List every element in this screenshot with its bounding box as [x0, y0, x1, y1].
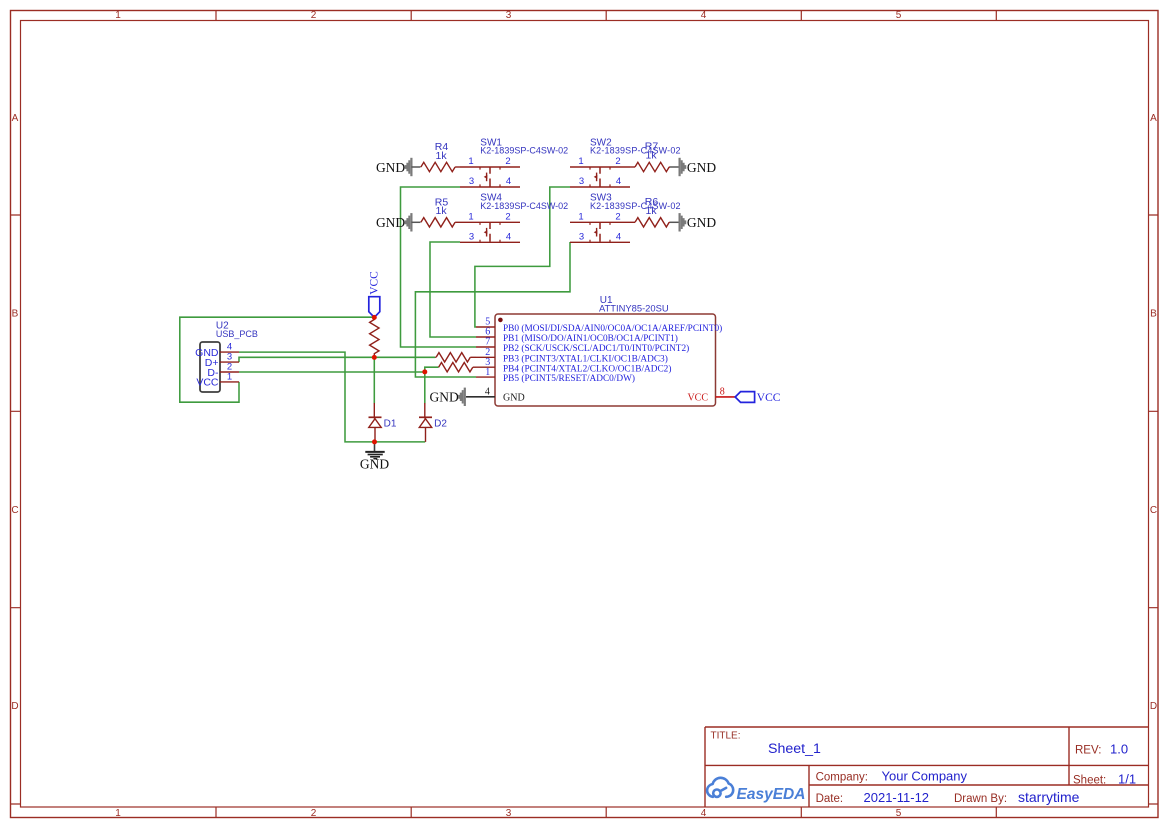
svg-text:D1: D1: [384, 418, 397, 429]
gnd flag GND (left row1): [376, 158, 421, 176]
svg-text:Your Company: Your Company: [882, 769, 968, 784]
resistor series D- to PB4: [439, 363, 476, 372]
switch SW3: [570, 212, 630, 243]
svg-text:B: B: [1150, 309, 1157, 320]
title block: [705, 727, 1149, 807]
svg-text:Sheet:: Sheet:: [1073, 774, 1106, 786]
svg-text:USB_PCB: USB_PCB: [216, 329, 258, 339]
svg-text:GND: GND: [360, 457, 389, 472]
svg-text:PB5 (PCINT5/RESET/ADC0/DW): PB5 (PCINT5/RESET/ADC0/DW): [503, 373, 635, 384]
svg-text:K2-1839SP-C4SW-02: K2-1839SP-C4SW-02: [480, 146, 568, 156]
frame row ticks left: [11, 215, 21, 804]
svg-text:A: A: [12, 113, 19, 124]
switch SW1: [460, 156, 520, 187]
U1 pin 8 VCC: [687, 387, 735, 404]
svg-text:K2-1839SP-C4SW-02: K2-1839SP-C4SW-02: [480, 201, 568, 211]
svg-text:4: 4: [485, 387, 490, 398]
IC U1 ATTINY85-20SU: [466, 295, 735, 406]
svg-text:EasyEDA: EasyEDA: [737, 786, 806, 803]
svg-text:GND: GND: [503, 393, 525, 404]
svg-text:C: C: [1150, 505, 1157, 516]
wire SW1.3 to U1 PB2: [401, 187, 477, 347]
wire D- junction to series resistor: [425, 367, 439, 372]
svg-text:1/1: 1/1: [1118, 771, 1136, 786]
resistor R6: [630, 196, 670, 227]
svg-text:ATTINY85-20SU: ATTINY85-20SU: [599, 303, 669, 314]
power flag VCC (right of U1): [735, 392, 781, 405]
U1 pin 2: [476, 347, 668, 364]
wire SW3.3 to U1 PB5: [415, 242, 570, 377]
junction dot at VCC flag: [372, 315, 377, 320]
pin 1 marker dot: [498, 318, 503, 323]
svg-text:2: 2: [311, 808, 317, 819]
svg-text:K2-1839SP-C4SW-02: K2-1839SP-C4SW-02: [590, 201, 681, 211]
EasyEDA logo: [707, 778, 805, 803]
svg-text:VCC: VCC: [757, 392, 781, 404]
svg-text:VCC: VCC: [687, 392, 708, 403]
diode D1: [369, 403, 397, 442]
U1 pin 5: [476, 317, 722, 335]
svg-text:Drawn By:: Drawn By:: [954, 793, 1007, 805]
svg-text:TITLE:: TITLE:: [711, 731, 741, 742]
svg-text:GND: GND: [430, 390, 459, 405]
U1 pin 3: [476, 357, 671, 374]
svg-text:4: 4: [701, 808, 707, 819]
switch SW4: [460, 212, 520, 243]
svg-text:K2-1839SP-C4SW-02: K2-1839SP-C4SW-02: [590, 146, 681, 156]
svg-text:PB2 (SCK/USCK/SCL/ADC1/T0/INT0: PB2 (SCK/USCK/SCL/ADC1/T0/INT0/PCINT2): [503, 343, 689, 354]
wire junction to D2: [424, 372, 426, 403]
svg-text:1: 1: [115, 808, 121, 819]
switch SW2: [570, 156, 630, 187]
svg-text:Company:: Company:: [816, 772, 868, 784]
frame row ticks right: [1149, 215, 1158, 804]
svg-text:3: 3: [506, 808, 512, 819]
svg-text:1k: 1k: [436, 150, 448, 162]
svg-text:2021-11-12: 2021-11-12: [864, 790, 930, 805]
svg-text:5: 5: [896, 808, 902, 819]
diode D2: [419, 403, 447, 442]
svg-text:1.0: 1.0: [1110, 742, 1128, 757]
svg-text:GND: GND: [376, 215, 405, 230]
svg-text:Sheet_1: Sheet_1: [768, 741, 821, 757]
svg-text:D: D: [1150, 701, 1157, 712]
svg-text:1: 1: [115, 10, 121, 21]
frame column ticks top: [216, 11, 996, 21]
svg-text:VCC: VCC: [196, 377, 219, 389]
junction dot pull-up / D+: [372, 355, 377, 360]
svg-text:GND: GND: [687, 160, 716, 175]
wire D+ net U2.3 to series resistor: [239, 357, 435, 362]
svg-text:PB1 (MISO/DO/AIN1/OC0B/OC1A/PC: PB1 (MISO/DO/AIN1/OC0B/OC1A/PCINT1): [503, 333, 678, 344]
svg-text:GND: GND: [687, 215, 716, 230]
svg-text:2: 2: [311, 10, 317, 21]
svg-text:PB3 (PCINT3/XTAL1/CLKI/OC1B/AD: PB3 (PCINT3/XTAL1/CLKI/OC1B/ADC3): [503, 353, 668, 364]
svg-text:1: 1: [485, 367, 490, 378]
svg-text:PB0 (MOSI/DI/SDA/AIN0/OC0A/OC1: PB0 (MOSI/DI/SDA/AIN0/OC0A/OC1A/AREF/PCI…: [503, 323, 722, 334]
svg-text:1k: 1k: [436, 205, 448, 217]
connector U2 USB_PCB: [195, 321, 258, 392]
svg-text:D2: D2: [434, 418, 447, 429]
gnd flag GND (left row2): [376, 213, 421, 231]
resistor pull-up (vertical): [370, 317, 379, 357]
svg-text:Date:: Date:: [816, 793, 844, 805]
resistor R4: [421, 141, 460, 172]
junction dot D- / D2: [422, 369, 427, 374]
svg-text:3: 3: [506, 10, 512, 21]
resistor R7: [630, 140, 670, 171]
svg-text:D: D: [11, 701, 18, 712]
svg-text:C: C: [11, 505, 18, 516]
wire GND net U2.4 to diode junction: [239, 352, 425, 442]
svg-text:4: 4: [701, 10, 707, 21]
U1 pin 7: [476, 337, 689, 354]
wire junction to D1: [373, 357, 375, 403]
svg-text:PB4 (PCINT4/XTAL2/CLKO/OC1B/AD: PB4 (PCINT4/XTAL2/CLKO/OC1B/ADC2): [503, 363, 671, 374]
frame column ticks bottom: [216, 808, 996, 818]
gnd flag GND (U1 pin4): [430, 388, 466, 406]
resistor series D+ to PB3: [435, 353, 476, 362]
wire SW4.3 to U1 PB1: [430, 242, 476, 337]
svg-text:REV:: REV:: [1075, 745, 1101, 757]
svg-text:VCC: VCC: [368, 271, 380, 295]
ground GND (earth): [360, 442, 389, 472]
U1 pin 4 GND: [466, 387, 525, 404]
gnd flag GND (right row1): [670, 158, 716, 176]
svg-text:GND: GND: [376, 160, 405, 175]
gnd flag GND (right row2): [670, 213, 716, 231]
resistor R5: [421, 196, 460, 227]
svg-text:1k: 1k: [646, 150, 658, 162]
svg-text:1: 1: [227, 371, 232, 382]
wire SW2.3 to U1 PB0: [475, 187, 570, 327]
junction dot diode GND: [372, 439, 377, 444]
svg-text:B: B: [12, 309, 19, 320]
wire VCC net U2.1 to VCC flag: [180, 317, 374, 402]
U1 pin 6: [476, 327, 678, 345]
svg-text:1k: 1k: [646, 205, 658, 217]
svg-text:starrytime: starrytime: [1018, 789, 1080, 805]
U1 pin 1: [476, 367, 635, 384]
power flag VCC (vertical): [368, 271, 380, 318]
svg-text:A: A: [1150, 113, 1157, 124]
svg-text:8: 8: [720, 387, 725, 398]
svg-text:5: 5: [896, 10, 902, 21]
wire D- net U2.2 to junction: [239, 371, 425, 373]
